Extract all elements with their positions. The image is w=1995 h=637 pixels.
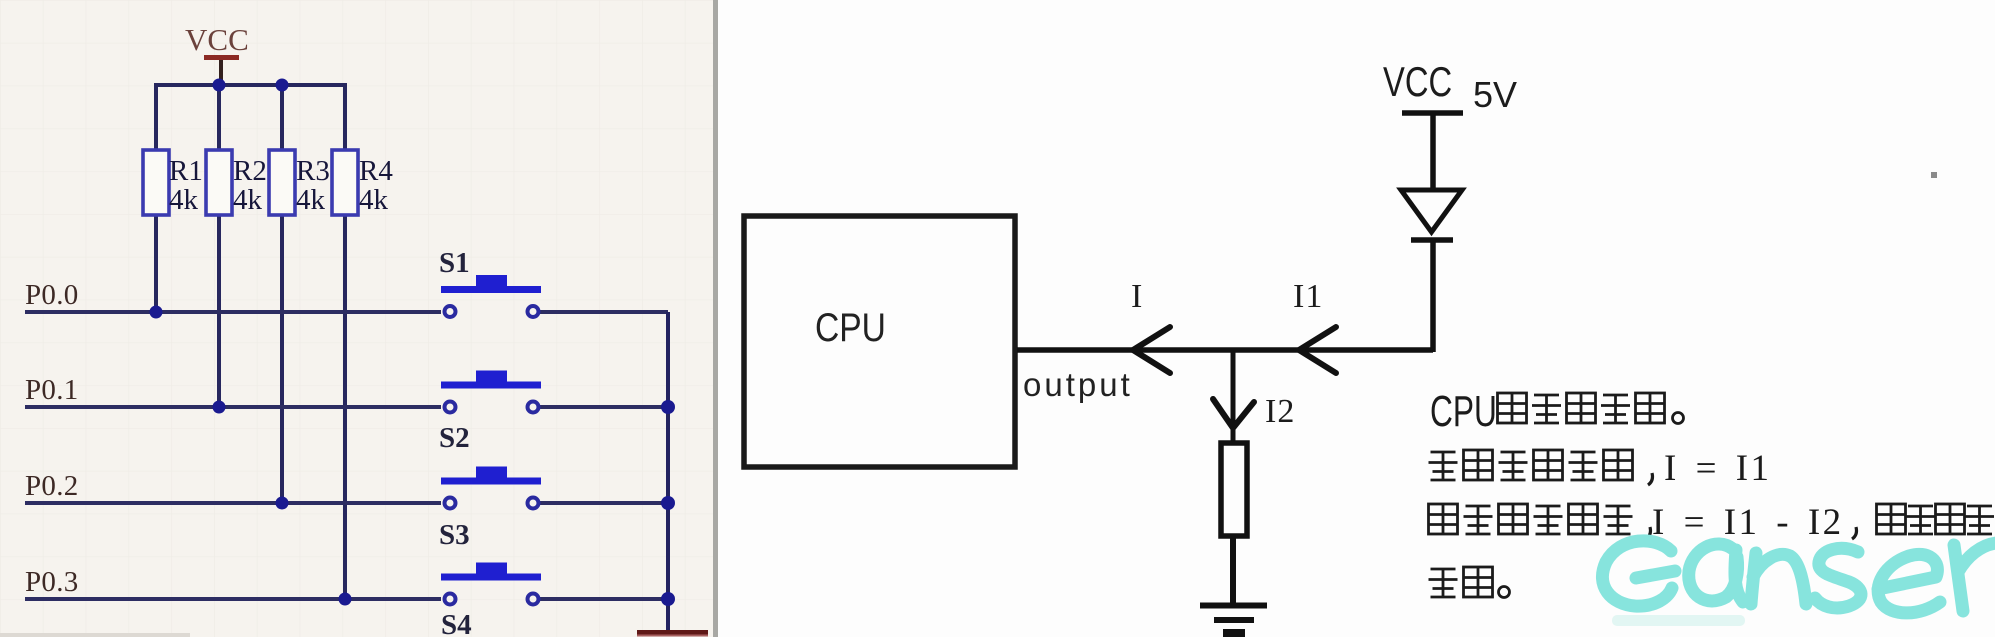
- svg-text:CPU: CPU: [815, 305, 886, 349]
- svg-text:P0.0: P0.0: [25, 279, 79, 311]
- svg-text:P0.2: P0.2: [25, 470, 79, 502]
- svg-text:P0.1: P0.1: [25, 374, 79, 406]
- svg-text:I2: I2: [1265, 393, 1295, 430]
- svg-text:VCC: VCC: [1383, 58, 1452, 105]
- svg-text:S2: S2: [439, 422, 470, 454]
- svg-text:R1: R1: [169, 155, 203, 187]
- svg-text:4k: 4k: [233, 184, 263, 216]
- svg-text:output: output: [1023, 366, 1133, 403]
- svg-text:I = I1 - I2: I = I1 - I2: [1652, 502, 1844, 543]
- svg-text:I: I: [1131, 278, 1142, 315]
- svg-text:S3: S3: [439, 519, 470, 551]
- svg-text:VCC: VCC: [185, 22, 249, 57]
- svg-text:S4: S4: [441, 609, 472, 637]
- svg-text:5V: 5V: [1473, 74, 1517, 115]
- svg-text:CPU: CPU: [1430, 387, 1497, 436]
- svg-text:P0.3: P0.3: [25, 566, 79, 598]
- svg-text:R2: R2: [233, 155, 267, 187]
- svg-text:I1: I1: [1293, 278, 1323, 315]
- svg-text:I = I1: I = I1: [1664, 448, 1772, 489]
- svg-text:R4: R4: [359, 155, 393, 187]
- svg-text:4k: 4k: [169, 184, 199, 216]
- svg-text:4k: 4k: [296, 184, 326, 216]
- svg-text:R3: R3: [296, 155, 330, 187]
- svg-text:4k: 4k: [359, 184, 389, 216]
- svg-text:S1: S1: [439, 247, 470, 279]
